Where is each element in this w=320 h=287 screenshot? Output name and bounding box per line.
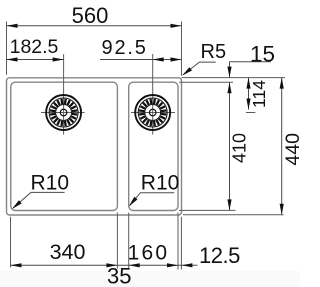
bottom extension line right bowl edge	[177, 213, 179, 270]
svg-text:15: 15	[250, 41, 275, 66]
extension line left edge (560/182.5)	[6, 22, 8, 75]
svg-text:92.5: 92.5	[102, 37, 148, 59]
right drain strainer	[135, 95, 170, 130]
svg-text:35: 35	[107, 264, 131, 287]
dimension line 92.5	[100, 59, 182, 61]
svg-text:410: 410	[229, 133, 249, 163]
dimension line 560	[7, 25, 182, 27]
right drain vertical centerline	[152, 54, 154, 135]
leader R10 left bowl	[13, 192, 64, 208]
sink outer outline	[7, 78, 182, 215]
bottom chained dimension line 340/35/160/12.5	[11, 264, 198, 266]
leader R5	[183, 62, 216, 75]
svg-text:182.5: 182.5	[10, 36, 59, 58]
left drain horizontal centerline	[41, 112, 85, 114]
dimension 15 upper segment	[229, 62, 231, 78]
svg-text:114: 114	[249, 80, 269, 108]
svg-text:560: 560	[72, 3, 109, 28]
right drain horizontal centerline	[131, 112, 175, 114]
svg-text:440: 440	[282, 133, 300, 166]
dimension line 114	[248, 78, 250, 110]
svg-text:160: 160	[128, 242, 170, 265]
dimension line 182.5	[7, 59, 64, 61]
left drain strainer	[46, 95, 81, 130]
sink bottom edge extension	[183, 214, 284, 216]
dimension line 440	[281, 78, 283, 215]
leader R10 right bowl	[130, 193, 175, 206]
svg-text:R5: R5	[201, 41, 227, 63]
bowl top edge extension	[179, 81, 233, 83]
svg-text:340: 340	[50, 240, 86, 264]
left drain vertical centerline	[63, 54, 65, 134]
sink top edge extension	[182, 77, 286, 79]
left bowl outline	[11, 82, 118, 210]
drain centerline tick (114)	[246, 112, 255, 114]
right bowl outline	[129, 82, 178, 210]
leader line 15	[230, 61, 272, 63]
extension line right edge (560/92.5)	[181, 22, 183, 76]
bottom extension line sink left	[10, 217, 12, 268]
bottom extension line divider right	[128, 213, 130, 269]
bottom extension line divider left	[116, 213, 118, 269]
svg-text:R10: R10	[141, 172, 180, 195]
bottom extension line sink right	[180, 217, 182, 270]
svg-text:R10: R10	[31, 172, 70, 195]
dimension line 410 (with 15 lower arrow)	[229, 82, 231, 210]
svg-text:12.5: 12.5	[199, 243, 240, 268]
bowl bottom edge extension	[179, 209, 236, 211]
